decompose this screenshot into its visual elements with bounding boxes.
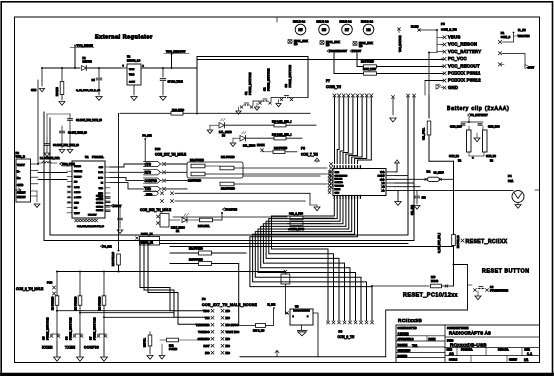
svg-text:PUSH_BUTTON: PUSH_BUTTON xyxy=(69,318,73,340)
svg-text:SH1&U: SH1&U xyxy=(17,192,26,195)
svg-text:TXD: TXD xyxy=(99,188,104,190)
svg-text:3VOUT: 3VOUT xyxy=(352,49,361,53)
svg-text:R10: R10 xyxy=(431,276,436,279)
svg-text:C6A,C6B,C6C,C6D /TU_/O: C6A,C6B,C6C,C6D /TU_/O xyxy=(77,225,104,228)
svg-text:FUSED: FUSED xyxy=(169,348,177,351)
svg-text:CON_0_TH: CON_0_TH xyxy=(338,335,355,339)
svg-text:12022: 12022 xyxy=(398,331,410,336)
svg-text:CBUS2: CBUS2 xyxy=(96,203,104,205)
svg-text:SCALE: SCALE xyxy=(449,359,458,362)
svg-text:FSCM NO.: FSCM NO. xyxy=(461,349,473,352)
svg-text:RTS: RTS xyxy=(145,171,151,175)
svg-text:R15 FUSED: R15 FUSED xyxy=(189,259,203,262)
svg-text:HOLE 4.2: HOLE 4.2 xyxy=(361,19,373,23)
svg-text:SH1&U: SH1&U xyxy=(17,196,26,199)
svg-text:PC_VCC: PC_VCC xyxy=(448,56,467,61)
svg-text:GND: GND xyxy=(335,172,340,174)
svg-text:PUSHBUTTON: PUSHBUTTON xyxy=(490,289,508,293)
svg-text:PUSH_BUTTON: PUSH_BUTTON xyxy=(46,318,50,340)
svg-text:VCC_REGON: VCC_REGON xyxy=(448,42,477,47)
svg-text:NC //VCC: NC //VCC xyxy=(226,323,240,327)
svg-text:VC_BATTERY: VC_BATTERY xyxy=(470,113,488,117)
svg-text:TXD/RXD: TXD/RXD xyxy=(335,186,345,188)
svg-text:CLIP_B2C: CLIP_B2C xyxy=(450,126,462,129)
svg-text:RESET BUTTON: RESET BUTTON xyxy=(482,269,530,275)
svg-text:RESET_RCIIXX: RESET_RCIIXX xyxy=(466,239,508,245)
svg-text:RT3PL_N1: RT3PL_N1 xyxy=(141,242,154,245)
svg-text:R13FUSED: R13FUSED xyxy=(188,180,201,183)
svg-text:C1 100N_X7R_TALE_25: C1 100N_X7R_TALE_25 xyxy=(76,119,102,122)
svg-text:R9 PULL49: R9 PULL49 xyxy=(457,235,460,248)
svg-text:LT3009_1.8: LT3009_1.8 xyxy=(127,60,141,63)
svg-text:CONFIG: CONFIG xyxy=(335,182,343,184)
svg-text:CON_2_TH_MALE: CON_2_TH_MALE xyxy=(16,287,43,291)
svg-text:GND: GND xyxy=(74,202,79,204)
svg-text:H7: H7 xyxy=(345,28,349,32)
svg-text:R?PULL: R?PULL xyxy=(145,337,147,347)
svg-text:GND: GND xyxy=(17,183,23,187)
svg-text:CON_7_TH: CON_7_TH xyxy=(301,153,318,157)
svg-text:CLIP_B3C: CLIP_B3C xyxy=(488,126,500,129)
svg-text:CTS: CTS xyxy=(145,162,151,166)
svg-text:VOUT: VOUT xyxy=(17,163,25,167)
svg-text:DCD: DCD xyxy=(98,177,103,179)
svg-text:C7 100_TALE: C7 100_TALE xyxy=(168,81,184,84)
svg-text:VBUS: VBUS xyxy=(448,35,461,40)
svg-text:S5: S5 xyxy=(42,336,46,340)
svg-text:S3: S3 xyxy=(284,84,288,88)
svg-text:P10: P10 xyxy=(47,281,53,285)
svg-text:CON8_TH: CON8_TH xyxy=(326,85,342,89)
svg-text:1.1: 1.1 xyxy=(527,352,532,356)
svg-text:TMS/GND: TMS/GND xyxy=(196,323,211,327)
svg-text:VCC: VCC xyxy=(129,74,134,77)
svg-text:USB_B: USB_B xyxy=(16,155,25,159)
svg-text:3VOUT: 3VOUT xyxy=(113,205,122,208)
svg-text:DRAWN: DRAWN xyxy=(398,343,408,347)
svg-text:P13: P13 xyxy=(155,147,161,151)
svg-text:GLB: GLB xyxy=(31,89,36,92)
svg-text:FT232RL: FT232RL xyxy=(92,155,104,159)
svg-text:NC: NC xyxy=(74,182,78,184)
svg-text:ML/MB: ML/MB xyxy=(411,27,419,29)
svg-text:PC_/KE: PC_/KE xyxy=(143,135,152,138)
svg-text:R?PL/BEL: R?PL/BEL xyxy=(198,225,210,228)
svg-text:U1: U1 xyxy=(85,155,89,159)
svg-text:CONFIG: CONFIG xyxy=(84,346,99,350)
svg-text:VCC_BATTERY: VCC_BATTERY xyxy=(448,49,481,54)
svg-text:P20 0.27L_NKL_I: P20 0.27L_NKL_I xyxy=(272,121,292,124)
svg-text:CBUS1: CBUS1 xyxy=(96,199,104,201)
svg-text:CBUS0: CBUS0 xyxy=(96,196,104,198)
svg-text:1/1: 1/1 xyxy=(524,358,529,362)
svg-text:RCxxxxDB-USB: RCxxxxDB-USB xyxy=(450,343,487,348)
svg-text:S7: S7 xyxy=(89,336,93,340)
svg-text:S4: S4 xyxy=(490,285,494,289)
svg-text:R5 1M0: R5 1M0 xyxy=(56,87,59,96)
svg-text:P20 0.27L_NKL_I: P20 0.27L_NKL_I xyxy=(272,134,292,137)
svg-text:HOLE 4.2: HOLE 4.2 xyxy=(340,19,352,23)
svg-text:DSR: DSR xyxy=(98,172,103,174)
svg-text:CBUS4: CBUS4 xyxy=(96,209,104,212)
svg-text:PUSH_BUTTON: PUSH_BUTTON xyxy=(288,65,292,87)
svg-text:OSCO: OSCO xyxy=(74,192,81,194)
svg-text:S6: S6 xyxy=(65,336,69,340)
svg-text:D-: D- xyxy=(17,170,20,174)
svg-text:CONTRACT NO: CONTRACT NO xyxy=(398,326,417,330)
svg-text:C?_SELF: C?_SELF xyxy=(434,173,445,175)
svg-text:R4 F_1.5M: R4 F_1.5M xyxy=(363,67,376,71)
svg-text:D27 A_M9: D27 A_M9 xyxy=(253,330,265,333)
svg-text:P6: P6 xyxy=(301,147,305,151)
svg-text:R? FUSED: R? FUSED xyxy=(98,297,102,310)
svg-text:RXEN: RXEN xyxy=(335,189,341,191)
svg-text:U9: U9 xyxy=(295,305,299,309)
svg-text:GND/TX/TRD: GND/TX/TRD xyxy=(335,175,348,177)
svg-text:PCIXXX P3N12: PCIXXX P3N12 xyxy=(448,78,481,83)
svg-text:PL843: PL843 xyxy=(431,280,439,283)
svg-text:P8: P8 xyxy=(202,297,206,301)
svg-text:R21 FUSED: R21 FUSED xyxy=(190,159,204,162)
svg-text:C_4N_4BU3_/X7_/L_1D: C_4N_4BU3_/X7_/L_1D xyxy=(76,89,100,92)
svg-text:CONFIG: CONFIG xyxy=(145,179,158,183)
svg-text:VCC_REGOUT: VCC_REGOUT xyxy=(166,50,186,54)
svg-text:RESET_PC10/12xx: RESET_PC10/12xx xyxy=(403,293,458,299)
svg-text:TAL: TAL xyxy=(412,344,418,348)
svg-text:A-GND: A-GND xyxy=(74,196,82,199)
svg-text:A3: A3 xyxy=(449,352,454,356)
svg-text:USBDM: USBDM xyxy=(74,171,82,173)
svg-text:R11 FUSED: R11 FUSED xyxy=(221,156,235,159)
svg-text:VCC_REGIN: VCC_REGIN xyxy=(77,44,93,48)
svg-text:KL_KE: KL_KE xyxy=(518,30,526,32)
svg-text:GND: GND xyxy=(448,85,458,90)
svg-text:LBL_RED3: LBL_RED3 xyxy=(243,145,256,148)
svg-text:CON_3: CON_3 xyxy=(501,35,511,39)
svg-text:C2 10U_TALE_16: C2 10U_TALE_16 xyxy=(68,132,87,135)
svg-text:PUSH_BUTTON: PUSH_BUTTON xyxy=(267,69,271,91)
svg-text:PCIXXX P3N11: PCIXXX P3N11 xyxy=(448,71,481,76)
svg-text:TDO: TDO xyxy=(203,309,210,313)
svg-text:R30 PULL49: R30 PULL49 xyxy=(112,251,115,266)
svg-text:VCC_BUTTON: VCC_BUTTON xyxy=(399,35,402,52)
svg-text:C_NB_N&T_/TU_I: C_NB_N&T_/TU_I xyxy=(438,233,441,253)
svg-text:CON_2X7_TH_MALE: CON_2X7_TH_MALE xyxy=(155,153,186,157)
svg-text:Battery clip (2xAAA): Battery clip (2xAAA) xyxy=(447,106,510,112)
svg-text:CON_2X3_TH_MALE: CON_2X3_TH_MALE xyxy=(140,208,171,212)
svg-text:P7: P7 xyxy=(326,79,330,83)
svg-text:R? FUSED: R? FUSED xyxy=(74,297,78,310)
svg-text:C?L_PULL: C?L_PULL xyxy=(423,127,426,140)
svg-text:S2: S2 xyxy=(263,87,267,91)
svg-text:TEST /DC: TEST /DC xyxy=(226,330,241,334)
svg-text:TXD: TXD xyxy=(145,187,152,191)
svg-text:R? FUSED: R? FUSED xyxy=(51,297,55,310)
svg-text:DWG NO.: DWG NO. xyxy=(498,349,509,352)
svg-text:TCK/DC: TCK/DC xyxy=(198,330,210,334)
svg-text:USBDP: USBDP xyxy=(74,176,82,178)
svg-text:KC/KE: KC/KE xyxy=(257,144,265,147)
svg-text:OSCI: OSCI xyxy=(74,187,80,189)
svg-text:P4: P4 xyxy=(508,174,512,178)
svg-text:External Regulator: External Regulator xyxy=(95,35,153,41)
svg-text:RADIOCRAFTS AS: RADIOCRAFTS AS xyxy=(449,330,491,335)
svg-text:TXEN: TXEN xyxy=(65,346,76,350)
svg-text:VI 5U: VI 5U xyxy=(129,69,135,71)
svg-text:VCCIO: VCCIO xyxy=(74,166,81,168)
svg-text:TEST: TEST xyxy=(74,213,80,215)
svg-text:CLIP_B2: CLIP_B2 xyxy=(449,155,460,158)
svg-text:PUSH_BUTTON: PUSH_BUTTON xyxy=(248,73,252,95)
svg-text:CON_2X7_TH_MALE_HOUSE: CON_2X7_TH_MALE_HOUSE xyxy=(202,303,257,307)
svg-text:C19: C19 xyxy=(422,198,427,200)
svg-text:HOLE 4.2: HOLE 4.2 xyxy=(293,19,305,23)
svg-text:R14 FUSED: R14 FUSED xyxy=(189,248,203,251)
svg-text:P5: P5 xyxy=(441,22,445,26)
svg-text:P8: P8 xyxy=(339,329,343,333)
svg-text:R24 FUSED: R24 FUSED xyxy=(274,147,287,150)
svg-text:R12 FUSED: R12 FUSED xyxy=(221,188,235,191)
svg-text:CON_8_TH: CON_8_TH xyxy=(441,28,457,32)
svg-text:CBUS3: CBUS3 xyxy=(96,206,104,208)
svg-text:PC_/KE: PC_/KE xyxy=(103,246,112,249)
svg-text:C3 100N_X7R_TALE_16: C3 100N_X7R_TALE_16 xyxy=(53,144,79,147)
svg-text:H8: H8 xyxy=(366,28,370,32)
svg-text:DATE: DATE xyxy=(429,337,436,341)
svg-text:H5: H5 xyxy=(298,28,302,32)
svg-text:R2: R2 xyxy=(427,170,431,174)
svg-text:M_/KE: M_/KE xyxy=(268,304,276,307)
svg-text:R4 FUSED: R4 FUSED xyxy=(361,60,374,64)
svg-text:5VA: 5VA xyxy=(508,179,513,183)
svg-text:H6: H6 xyxy=(322,28,326,32)
svg-text:PUSH_BUTTON: PUSH_BUTTON xyxy=(93,318,97,340)
svg-text:RST: RST xyxy=(204,344,210,348)
svg-text:P31PL_N1: P31PL_N1 xyxy=(141,233,153,236)
svg-text:CTS: CTS xyxy=(99,167,104,169)
svg-text:HOLE 4.2: HOLE 4.2 xyxy=(317,19,329,23)
svg-text:CHECKED: CHECKED xyxy=(398,349,411,353)
svg-text:TDI: TDI xyxy=(205,316,210,320)
svg-text:SHEET: SHEET xyxy=(509,359,518,362)
svg-text:VDD.FTDI: VDD.FTDI xyxy=(518,34,530,38)
svg-text:S1: S1 xyxy=(244,91,248,95)
svg-text:NC: NC xyxy=(74,208,78,210)
svg-text:CLIP_B3: CLIP_B3 xyxy=(486,155,497,158)
svg-text:APPROVALS: APPROVALS xyxy=(398,337,414,341)
svg-text:BAT754: BAT754 xyxy=(83,61,93,64)
svg-text:RCIIxx3B: RCIIxx3B xyxy=(398,318,422,324)
svg-text:VCC_RECOUT: VCC_RECOUT xyxy=(448,63,480,68)
svg-text:&OUT: &OUT xyxy=(129,82,136,84)
svg-text:ISSUED: ISSUED xyxy=(398,354,408,358)
svg-text:RXEN: RXEN xyxy=(42,346,53,350)
svg-text:VCC/REGOUT: VCC/REGOUT xyxy=(329,49,347,53)
svg-text:/RS-232: /RS-232 xyxy=(335,179,343,181)
svg-text:GND: GND xyxy=(335,192,340,194)
svg-text:D+: D+ xyxy=(17,176,21,180)
svg-text:LBL_GRN3: LBL_GRN3 xyxy=(219,131,232,134)
svg-text:3V3OUT: 3V3OUT xyxy=(88,215,97,217)
svg-text:VCC/FTDI: VCC/FTDI xyxy=(225,208,237,212)
svg-text:C?R_A_PB0: C?R_A_PB0 xyxy=(289,213,304,216)
